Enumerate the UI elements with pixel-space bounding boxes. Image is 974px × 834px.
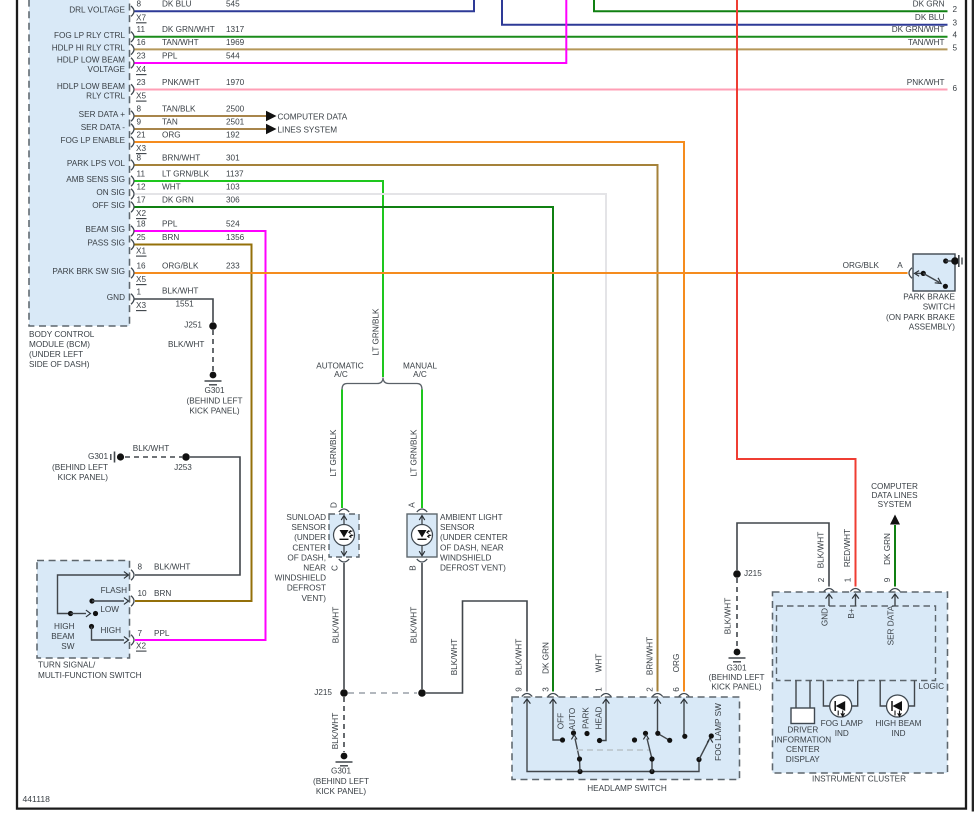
svg-text:C: C [331, 565, 340, 571]
svg-text:HIGH: HIGH [54, 622, 75, 631]
junction J253 [182, 453, 190, 461]
cluster pin 2 [824, 589, 834, 592]
svg-text:1356: 1356 [226, 233, 245, 242]
wire LT GRN/BLK 1137 down to A/C brace [135, 181, 384, 377]
wire BRN/WHT 301 to headlamp switch pin 2 [135, 165, 658, 692]
BCM pin 17 DK GRN 306 [131, 202, 134, 212]
fog lamp indicator [823, 681, 829, 707]
svg-text:5: 5 [953, 44, 958, 53]
svg-text:X1: X1 [136, 247, 146, 256]
wire ORG 192 to headlamp switch pin 6 [135, 142, 685, 692]
wire LT GRN/BLK to sunload sensor [341, 390, 343, 509]
svg-text:6: 6 [953, 84, 958, 93]
svg-text:ORG/BLK: ORG/BLK [843, 261, 880, 270]
svg-text:MODULE (BCM): MODULE (BCM) [29, 340, 90, 349]
svg-text:A/C: A/C [413, 370, 427, 379]
svg-text:PARK BRAKE: PARK BRAKE [903, 293, 955, 302]
contact (middle left) [632, 737, 637, 742]
svg-text:BRN: BRN [154, 589, 171, 598]
svg-text:A: A [408, 502, 417, 508]
svg-text:BODY CONTROL: BODY CONTROL [29, 330, 95, 339]
svg-text:9: 9 [883, 577, 892, 582]
svg-text:X3: X3 [136, 144, 146, 153]
svg-text:1969: 1969 [226, 38, 245, 47]
svg-text:X2: X2 [136, 642, 146, 651]
svg-text:FLASH: FLASH [101, 586, 127, 595]
wire BLK/WHT J215 to G301 dashed [343, 697, 345, 752]
wire ORG/BLK 233 to park brake switch [135, 272, 908, 274]
svg-text:AMB SENS SIG: AMB SENS SIG [66, 175, 125, 184]
svg-text:3: 3 [542, 687, 551, 692]
svg-text:B+: B+ [847, 608, 856, 618]
svg-text:X3: X3 [136, 301, 146, 310]
svg-text:(BEHIND LEFT: (BEHIND LEFT [313, 777, 369, 786]
svg-text:X5: X5 [136, 92, 146, 101]
wire DK BLU 545 from BCM pin 8 up [135, 0, 475, 11]
svg-text:1317: 1317 [226, 25, 245, 34]
body control module box [29, 0, 130, 326]
svg-text:DISPLAY: DISPLAY [786, 755, 821, 764]
svg-text:ON SIG: ON SIG [96, 188, 125, 197]
svg-text:COMPUTER: COMPUTER [871, 482, 918, 491]
svg-text:(BEHIND LEFT: (BEHIND LEFT [709, 673, 765, 682]
svg-text:RLY CTRL: RLY CTRL [86, 91, 125, 100]
svg-text:INSTRUMENT CLUSTER: INSTRUMENT CLUSTER [812, 775, 906, 784]
svg-text:VENT): VENT) [301, 594, 326, 603]
svg-text:LT GRN/BLK: LT GRN/BLK [329, 429, 338, 477]
svg-text:CENTER: CENTER [786, 745, 820, 754]
BCM pin 8 TAN/BLK 2500 [131, 111, 134, 121]
svg-text:2501: 2501 [226, 117, 245, 126]
svg-text:B: B [409, 565, 418, 571]
svg-text:16: 16 [137, 261, 147, 270]
svg-text:RED/WHT: RED/WHT [843, 529, 852, 567]
wire BLK/WHT G301 to J253 dashed [125, 456, 182, 458]
svg-text:PPL: PPL [154, 629, 170, 638]
svg-text:LT GRN/BLK: LT GRN/BLK [162, 169, 210, 178]
BCM pin 23 PPL 544 [131, 58, 134, 68]
svg-text:G301: G301 [726, 664, 746, 673]
svg-text:LOGIC: LOGIC [919, 682, 945, 691]
svg-text:8: 8 [137, 0, 142, 9]
ambient light sensor [407, 514, 437, 557]
svg-text:BLK/WHT: BLK/WHT [133, 444, 169, 453]
svg-text:441118: 441118 [23, 794, 51, 804]
ground G301 right [734, 649, 741, 656]
svg-text:524: 524 [226, 219, 240, 228]
headlamp internal: pin 6 contact [683, 713, 685, 736]
svg-text:233: 233 [226, 261, 240, 270]
svg-text:SER DATA: SER DATA [887, 605, 896, 645]
contact PARK [584, 731, 589, 736]
svg-text:KICK PANEL): KICK PANEL) [189, 407, 240, 416]
contact HIGH [89, 624, 94, 629]
svg-text:GND: GND [107, 293, 125, 302]
svg-text:10: 10 [138, 589, 148, 598]
wire BLK/WHT J215 to cluster GND [737, 523, 829, 587]
svg-text:DEFROST VENT): DEFROST VENT) [440, 563, 506, 572]
wire WHT 103 to headlamp switch pin 1 [135, 194, 607, 692]
headlamp switch pin 2 [652, 694, 662, 697]
svg-text:DK BLU: DK BLU [915, 13, 945, 22]
svg-text:AUTO: AUTO [568, 708, 577, 731]
svg-text:J215: J215 [314, 688, 332, 697]
svg-text:DK GRN: DK GRN [913, 0, 945, 9]
junction J251 [209, 322, 217, 330]
svg-text:J251: J251 [184, 321, 202, 330]
headlamp internal: pin 2 [658, 713, 670, 740]
svg-text:23: 23 [137, 78, 147, 87]
svg-text:IND: IND [835, 729, 849, 738]
svg-text:25: 25 [137, 233, 147, 242]
svg-text:PNK/WHT: PNK/WHT [907, 78, 945, 87]
headlamp switch box [512, 697, 740, 780]
svg-text:MULTI-FUNCTION SWITCH: MULTI-FUNCTION SWITCH [38, 671, 142, 680]
wire BLK/WHT sunload C to J215 [343, 563, 345, 689]
BCM pin 18 PPL 524 [131, 226, 134, 236]
BCM pin 23 PNK/WHT 1970 [131, 84, 134, 94]
park brake internal top contact to ground [943, 258, 948, 263]
fog lamp switch blade [699, 740, 709, 760]
svg-text:FOG LAMP SW: FOG LAMP SW [714, 703, 723, 761]
svg-text:LOW: LOW [100, 605, 119, 614]
svg-text:8: 8 [138, 563, 143, 572]
svg-text:WHT: WHT [162, 182, 181, 191]
svg-text:TAN/WHT: TAN/WHT [908, 38, 945, 47]
svg-text:192: 192 [226, 130, 240, 139]
svg-text:HIGH BEAM: HIGH BEAM [876, 719, 922, 728]
instrument cluster box [773, 592, 948, 773]
svg-text:BLK/WHT: BLK/WHT [162, 287, 198, 296]
BCM pin 25 BRN 1356 [131, 239, 134, 249]
svg-text:BLK/WHT: BLK/WHT [817, 532, 826, 568]
svg-text:BLK/WHT: BLK/WHT [168, 340, 204, 349]
headlamp switch pin 6 [679, 694, 689, 697]
svg-text:8: 8 [137, 153, 142, 162]
svg-text:PARK: PARK [582, 707, 591, 729]
svg-text:(ON PARK BRAKE: (ON PARK BRAKE [886, 313, 956, 322]
svg-text:18: 18 [137, 219, 147, 228]
svg-text:8: 8 [137, 104, 142, 113]
svg-text:KICK PANEL): KICK PANEL) [58, 473, 109, 482]
svg-text:PPL: PPL [162, 219, 178, 228]
svg-text:DRIVER: DRIVER [787, 725, 818, 734]
svg-text:KICK PANEL): KICK PANEL) [711, 683, 762, 692]
wire TAN/WHT 1969 to right edge (5) [135, 48, 948, 50]
svg-text:FOG LP RLY CTRL: FOG LP RLY CTRL [54, 31, 125, 40]
svg-text:LINES SYSTEM: LINES SYSTEM [278, 126, 338, 135]
svg-text:DEFROST: DEFROST [287, 584, 326, 593]
svg-text:IND: IND [891, 729, 905, 738]
svg-text:DATA LINES: DATA LINES [871, 491, 918, 500]
middle switch blade [647, 739, 652, 772]
svg-text:HDLP HI RLY CTRL: HDLP HI RLY CTRL [52, 44, 126, 53]
svg-text:OFF: OFF [557, 713, 566, 729]
wire BLK/WHT J253 to turn signal pin 8 [135, 457, 240, 575]
svg-text:OF DASH,: OF DASH, [287, 553, 326, 562]
BCM pin 8 BRN/WHT 301 [131, 160, 134, 170]
headlamp switch pin 1 [601, 694, 611, 697]
svg-text:DK GRN: DK GRN [883, 533, 892, 565]
svg-text:TAN/BLK: TAN/BLK [162, 104, 196, 113]
svg-text:ORG: ORG [672, 654, 681, 673]
wire DK BLU to right edge (3) [502, 0, 948, 25]
svg-text:HDLP LOW BEAM: HDLP LOW BEAM [57, 56, 125, 65]
wire DK GRN to right edge (2) [594, 0, 948, 11]
left switch blade [575, 739, 580, 772]
turn signal pin 10 [131, 596, 134, 606]
turn signal pin 7 [131, 635, 134, 645]
sunload sensor [329, 514, 359, 557]
svg-text:OF DASH, NEAR: OF DASH, NEAR [440, 543, 504, 552]
BCM pin 12 WHT 103 [131, 189, 134, 199]
svg-text:BLK/WHT: BLK/WHT [154, 563, 190, 572]
svg-text:12: 12 [137, 182, 147, 191]
svg-text:7: 7 [138, 629, 143, 638]
svg-text:9: 9 [515, 687, 524, 692]
svg-text:J253: J253 [174, 463, 192, 472]
svg-text:LT GRN/BLK: LT GRN/BLK [410, 429, 419, 477]
svg-text:BRN: BRN [162, 233, 179, 242]
wire LT GRN/BLK to ambient light sensor [421, 390, 423, 509]
svg-text:X4: X4 [136, 65, 146, 74]
svg-text:2: 2 [646, 687, 655, 692]
wire PNK/WHT 1970 to right edge (6) [135, 89, 948, 91]
svg-text:SIDE OF DASH): SIDE OF DASH) [29, 360, 90, 369]
svg-text:SYSTEM: SYSTEM [878, 500, 912, 509]
svg-text:PNK/WHT: PNK/WHT [162, 78, 200, 87]
wire BLK/WHT J251 to G301 dashed [212, 330, 214, 371]
headlamp switch pin 3 [548, 694, 558, 697]
wire BLK/WHT 1551 BCM GND to J251 [135, 299, 214, 322]
svg-text:1: 1 [137, 287, 142, 296]
svg-text:BEAM: BEAM [51, 632, 74, 641]
ground G301 left symbol [117, 453, 124, 460]
turn signal multi-function switch box [37, 561, 130, 659]
svg-text:9: 9 [137, 117, 142, 126]
svg-text:ORG/BLK: ORG/BLK [162, 261, 199, 270]
svg-text:CENTER: CENTER [292, 543, 326, 552]
svg-text:TURN SIGNAL/: TURN SIGNAL/ [38, 661, 96, 670]
svg-text:4: 4 [953, 31, 958, 40]
cluster pin 9 [890, 589, 900, 592]
BCM pin 11 LT GRN/BLK 1137 [131, 176, 134, 186]
contact AUTO [571, 730, 576, 735]
wire PPL 544 up at x566 [135, 0, 567, 63]
svg-text:LT GRN/BLK: LT GRN/BLK [372, 308, 381, 356]
svg-text:HEADLAMP SWITCH: HEADLAMP SWITCH [587, 784, 667, 793]
svg-text:(BEHIND LEFT: (BEHIND LEFT [52, 463, 108, 472]
BCM pin 9 TAN 2501 [131, 124, 134, 134]
svg-text:545: 545 [226, 0, 240, 9]
svg-text:(UNDER: (UNDER [294, 533, 326, 542]
svg-text:BLK/WHT: BLK/WHT [724, 598, 733, 634]
svg-text:BLK/WHT: BLK/WHT [332, 607, 341, 643]
switch linkage dashed [577, 749, 650, 751]
svg-text:BLK/WHT: BLK/WHT [450, 639, 459, 675]
svg-text:SENSOR: SENSOR [440, 523, 475, 532]
svg-text:PARK LPS VOL: PARK LPS VOL [67, 159, 126, 168]
cluster pin 1 [850, 589, 860, 592]
svg-text:ORG: ORG [162, 130, 181, 139]
svg-text:23: 23 [137, 51, 147, 60]
svg-text:HDLP LOW BEAM: HDLP LOW BEAM [57, 82, 125, 91]
svg-text:X5: X5 [136, 275, 146, 284]
svg-text:3: 3 [953, 18, 958, 27]
turn signal internal wiring [58, 575, 129, 614]
svg-text:FOG LAMP: FOG LAMP [821, 719, 864, 728]
wire BLK/WHT J215 to G301 dashed [736, 578, 738, 648]
svg-text:2500: 2500 [226, 104, 245, 113]
svg-text:HIGH: HIGH [101, 626, 122, 635]
svg-text:WHT: WHT [595, 654, 604, 673]
junction J215 [340, 689, 348, 697]
svg-text:DK GRN: DK GRN [162, 195, 194, 204]
wire DK GRN/WHT 1317 to right edge (4) [135, 36, 948, 38]
svg-text:SW: SW [61, 642, 74, 651]
svg-text:PPL: PPL [162, 51, 178, 60]
svg-text:BRN/WHT: BRN/WHT [646, 637, 655, 675]
svg-text:GND: GND [821, 608, 830, 626]
svg-text:TAN: TAN [162, 117, 178, 126]
junction J215 right [733, 570, 741, 578]
svg-text:1: 1 [595, 687, 604, 692]
svg-text:SER DATA -: SER DATA - [81, 123, 126, 132]
svg-text:BEAM SIG: BEAM SIG [85, 225, 125, 234]
driver information center display [795, 681, 797, 709]
wire BLK/WHT to headlamp switch pin 9 [426, 601, 527, 693]
svg-text:BLK/WHT: BLK/WHT [410, 607, 419, 643]
svg-text:X2: X2 [136, 209, 146, 218]
A/C split brace [342, 378, 422, 390]
svg-text:COMPUTER DATA: COMPUTER DATA [278, 113, 348, 122]
svg-text:2: 2 [817, 577, 826, 582]
svg-text:HEAD: HEAD [595, 707, 604, 730]
svg-text:SER DATA +: SER DATA + [79, 110, 126, 119]
svg-text:G301: G301 [331, 767, 351, 776]
svg-text:1551: 1551 [176, 300, 195, 309]
ground G301 below sunload [341, 753, 348, 760]
svg-text:BRN/WHT: BRN/WHT [162, 153, 200, 162]
svg-text:DK GRN/WHT: DK GRN/WHT [162, 25, 215, 34]
wire TAN/BLK 2500 to computer data arrow [135, 115, 267, 117]
svg-text:103: 103 [226, 182, 240, 191]
headlamp internal: pin 9 to bottom rail [527, 713, 699, 772]
turn signal pin 8 [131, 570, 134, 580]
svg-text:WINDSHIELD: WINDSHIELD [275, 574, 326, 583]
svg-text:KICK PANEL): KICK PANEL) [316, 787, 367, 796]
svg-text:11: 11 [137, 169, 146, 178]
park brake internal blade [916, 272, 923, 274]
svg-text:301: 301 [226, 153, 240, 162]
svg-text:J215: J215 [744, 569, 762, 578]
park brake switch box [913, 254, 955, 291]
svg-text:VOLTAGE: VOLTAGE [88, 65, 126, 74]
park brake pin A [909, 268, 912, 278]
svg-text:DK BLU: DK BLU [162, 0, 192, 9]
svg-text:PASS SIG: PASS SIG [87, 239, 125, 248]
BCM pin 16 TAN/WHT 1969 [131, 44, 134, 54]
headlamp internal: pin 3 contact [553, 713, 560, 740]
svg-text:306: 306 [226, 195, 240, 204]
svg-text:1: 1 [844, 577, 853, 582]
svg-text:X7: X7 [136, 13, 146, 22]
headlamp switch pin 9 [522, 694, 532, 697]
dashed link J215 to ambient wire [348, 692, 417, 694]
svg-text:17: 17 [137, 195, 147, 204]
ground G301 center [210, 372, 217, 379]
high beam indicator [880, 681, 886, 707]
BCM pin 16 ORG/BLK 233 [131, 268, 134, 278]
svg-text:ASSEMBLY): ASSEMBLY) [909, 323, 956, 332]
svg-text:SWITCH: SWITCH [923, 303, 955, 312]
BCM pin 1 BLK/WHT [131, 294, 134, 304]
svg-text:WINDSHIELD: WINDSHIELD [440, 553, 491, 562]
wire BLK/WHT ambient B down [421, 563, 423, 689]
svg-text:16: 16 [137, 38, 147, 47]
headlamp internal: pin 1 to HEAD contact [602, 713, 606, 741]
wire DK GRN 306 to headlamp switch pin 3 [135, 207, 554, 692]
svg-text:INFORMATION: INFORMATION [774, 735, 831, 744]
svg-text:TAN/WHT: TAN/WHT [162, 38, 199, 47]
wire RED/WHT to instrument cluster B+ [737, 0, 856, 587]
svg-text:AMBIENT LIGHT: AMBIENT LIGHT [440, 513, 503, 522]
svg-text:G301: G301 [204, 386, 224, 395]
svg-text:DK GRN: DK GRN [542, 642, 551, 674]
svg-text:6: 6 [672, 687, 681, 692]
wire TAN 2501 to computer data arrow [135, 128, 267, 130]
svg-text:(UNDER LEFT: (UNDER LEFT [29, 350, 83, 359]
wire DK GRN SER DATA to computer data lines [894, 525, 896, 587]
svg-text:SENSOR: SENSOR [291, 523, 326, 532]
svg-text:OFF SIG: OFF SIG [92, 201, 125, 210]
svg-text:DK GRN/WHT: DK GRN/WHT [892, 25, 945, 34]
BCM pin 21 ORG 192 [131, 137, 134, 147]
svg-text:(BEHIND LEFT: (BEHIND LEFT [187, 396, 243, 405]
svg-text:2: 2 [953, 5, 958, 14]
wire BRN 1356 to turn signal pin 10 [135, 245, 252, 602]
wire PPL 524 to turn signal pin 7 [135, 231, 266, 640]
logic box [777, 606, 936, 681]
svg-text:BLK/WHT: BLK/WHT [331, 713, 340, 749]
right outer edge line [972, 0, 974, 812]
svg-text:NEAR: NEAR [303, 563, 326, 572]
svg-text:BLK/WHT: BLK/WHT [515, 639, 524, 675]
svg-text:DRL VOLTAGE: DRL VOLTAGE [69, 5, 125, 14]
svg-text:1137: 1137 [226, 169, 244, 178]
svg-text:PARK BRK SW SIG: PARK BRK SW SIG [52, 267, 125, 276]
svg-text:SUNLOAD: SUNLOAD [286, 513, 326, 522]
svg-text:21: 21 [137, 130, 147, 139]
contact LOW [93, 611, 98, 616]
svg-text:A/C: A/C [334, 370, 348, 379]
BCM pin 11 DK GRN/WHT 1317 [131, 32, 134, 42]
svg-text:D: D [330, 502, 339, 508]
contact FLASH [89, 598, 94, 603]
svg-text:FOG LP ENABLE: FOG LP ENABLE [61, 136, 126, 145]
svg-text:G301: G301 [88, 452, 108, 461]
svg-text:11: 11 [137, 25, 146, 34]
svg-text:544: 544 [226, 51, 240, 60]
BCM pin 8 DK BLU 545 [131, 6, 134, 16]
contact (middle up) [643, 731, 648, 736]
svg-text:(UNDER CENTER: (UNDER CENTER [440, 533, 508, 542]
svg-text:A: A [897, 261, 903, 270]
svg-text:1970: 1970 [226, 78, 245, 87]
